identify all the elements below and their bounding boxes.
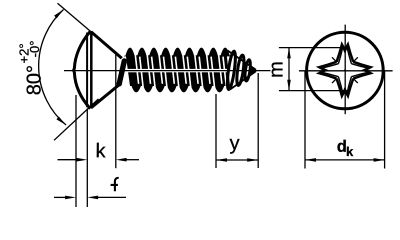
thread root gap stripe [127, 69, 228, 72]
svg-text:y: y [229, 132, 239, 154]
head top view: vertical centerline [344, 25, 346, 115]
dimension m arrow top [287, 48, 291, 59]
dimension f arrow left [65, 196, 76, 200]
thread runout crest [119, 61, 124, 84]
dimension dk arrow left [305, 158, 316, 162]
thread taper loop 2 [235, 55, 245, 86]
screw head: rim edge line [90, 31, 93, 108]
label f [111, 178, 119, 191]
head top view: horizontal centerline [299, 70, 393, 72]
extension line m top [279, 47, 349, 49]
thread taper top edge [228, 51, 257, 70]
angle extension line top [58, 3, 104, 42]
angle extension line bottom [54, 99, 99, 140]
label m [266, 61, 288, 78]
thread helix white gaps [135, 54, 226, 87]
dimension f line [54, 196, 66, 198]
dimension y line [216, 159, 258, 161]
dimension y arrow right [247, 158, 258, 162]
thread taper loop 1 [226, 51, 237, 90]
dimension m arrow bottom [287, 80, 291, 91]
screw head: oval dome arc [74, 31, 91, 109]
phillips recess corner ticks [332, 57, 358, 83]
dimension m line [288, 48, 290, 91]
thread taper bottom edge [230, 71, 256, 89]
screw head: cone top edge [91, 32, 122, 59]
extension line y right [257, 73, 259, 168]
dimension k line [58, 159, 78, 161]
angle dimension arc [39, 10, 66, 126]
thread top crests [124, 48, 232, 57]
extension line dk right [384, 71, 386, 169]
dimension y arrow left [216, 158, 227, 162]
extension line k right (cone-shank) [115, 52, 117, 168]
svg-text:-0°: -0° [27, 41, 42, 58]
thread tip cone [249, 64, 257, 76]
dimension dk arrow right [374, 158, 385, 162]
phillips recess center dot [344, 69, 346, 71]
svg-text:k: k [96, 140, 107, 162]
screw head: rim inner line [86, 33, 88, 108]
extension line k left / f right (rim plane) [86, 109, 88, 208]
thread bottom crests [130, 85, 226, 92]
head top view: circle [307, 32, 384, 109]
svg-text:80°: 80° [24, 65, 46, 95]
svg-text:m: m [266, 61, 288, 78]
thread body [126, 55, 230, 86]
extension line dk left [304, 71, 306, 169]
svg-text:k: k [346, 144, 354, 159]
label 80 degrees with tolerance [16, 41, 45, 96]
phillips recess outer star [319, 45, 370, 96]
phillips recess inner star [322, 47, 368, 93]
axis centerline of screw [64, 70, 271, 72]
screw head: cone bottom edge [91, 83, 121, 108]
dimension k arrow right [116, 158, 127, 162]
thread taper loop 3 [244, 59, 251, 81]
extension line y left [215, 94, 217, 168]
dimension f arrow right [87, 196, 98, 200]
extension line m bottom [279, 90, 349, 92]
extension line f left (dome apex) [75, 95, 77, 207]
dimension dk line [305, 159, 385, 161]
dimension k arrow left [77, 158, 88, 162]
angle arc arrowhead bottom [56, 116, 66, 125]
angle arc arrowhead top [54, 10, 63, 19]
